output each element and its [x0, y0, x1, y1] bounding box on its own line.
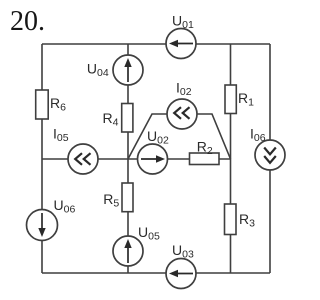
wire left: [41, 44, 43, 273]
svg-text:R3: R3: [239, 211, 255, 230]
svg-text:I05: I05: [53, 125, 69, 144]
resistor R2: [190, 153, 220, 165]
svg-text:U04: U04: [87, 61, 109, 80]
wire right: [269, 44, 271, 273]
voltage source U04: [113, 55, 143, 85]
resistor R3: [225, 204, 237, 235]
svg-text:U05: U05: [138, 224, 160, 243]
svg-text:R5: R5: [103, 191, 119, 210]
svg-text:R6: R6: [50, 95, 66, 114]
current source I02: [167, 99, 197, 129]
resistor R1: [225, 85, 236, 114]
svg-text:R4: R4: [103, 110, 119, 129]
svg-text:U06: U06: [54, 197, 76, 216]
svg-text:U03: U03: [172, 242, 194, 261]
wire middle horizontal: [42, 158, 231, 160]
voltage source U06: [27, 210, 58, 241]
wire I02 branch: [128, 114, 231, 159]
svg-text:I06: I06: [250, 126, 266, 145]
voltage source U01: [166, 29, 196, 59]
svg-text:U01: U01: [172, 13, 194, 32]
wire bottom: [42, 272, 270, 274]
resistor R6: [36, 90, 49, 119]
resistor R5: [122, 183, 133, 212]
current source I05: [68, 144, 98, 174]
wire inner right column: [230, 44, 232, 273]
svg-text:R2: R2: [197, 139, 213, 158]
svg-text:U02: U02: [147, 128, 169, 147]
svg-text:20.: 20.: [10, 6, 45, 37]
resistor R4: [122, 104, 133, 133]
voltage source U03: [166, 259, 196, 289]
wire center column: [127, 44, 129, 273]
voltage source U02: [138, 144, 168, 174]
current source I06: [255, 140, 285, 170]
svg-text:I02: I02: [176, 79, 192, 98]
svg-text:R1: R1: [238, 90, 254, 109]
voltage source U05: [113, 236, 143, 266]
wire top: [42, 43, 270, 45]
